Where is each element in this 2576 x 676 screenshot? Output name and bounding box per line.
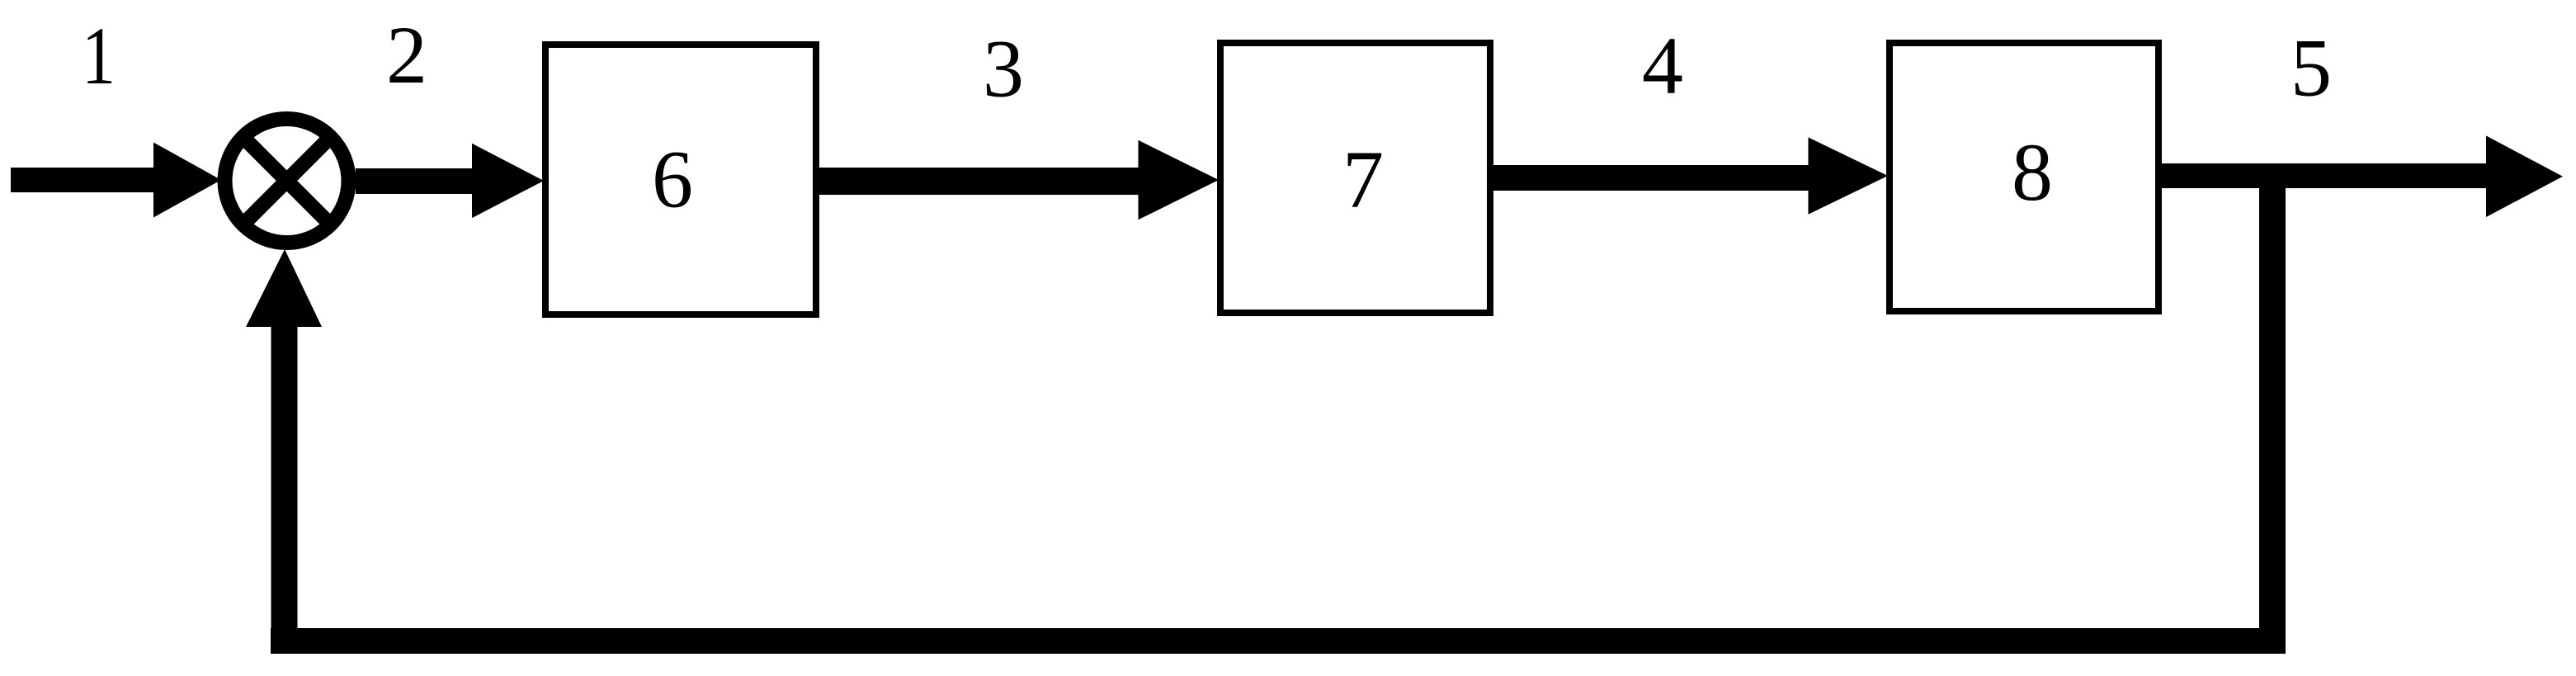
wire feedback bottom horizontal [271, 628, 2286, 654]
wire feedback vertical right [2259, 173, 2286, 654]
arrowhead input into summing junction [153, 143, 221, 218]
svg-text:8: 8 [2012, 126, 2053, 218]
arrowhead into block 8 [1809, 137, 1889, 214]
arrowhead up into summing junction [246, 249, 322, 327]
summing junction X cross [243, 136, 332, 225]
block 7 (plant) [1220, 43, 1490, 313]
block 8 (output stage) [1890, 43, 2158, 311]
svg-text:2: 2 [386, 9, 427, 101]
svg-text:4: 4 [1642, 20, 1683, 111]
svg-text:7: 7 [1342, 134, 1384, 225]
svg-text:3: 3 [983, 23, 1024, 115]
wire block 6 to block 7 [819, 168, 1141, 195]
svg-text:6: 6 [652, 134, 693, 225]
wire block 7 to block 8 [1493, 165, 1811, 191]
svg-text:1: 1 [82, 10, 116, 101]
summing junction (circle) [225, 119, 349, 243]
arrowhead output [2486, 135, 2563, 217]
wire output from block 8 [2162, 163, 2488, 188]
svg-text:5: 5 [2291, 22, 2332, 114]
block 6 (controller) [545, 45, 816, 314]
wire feedback vertical left [271, 325, 298, 654]
wire input [11, 168, 161, 192]
wire summing junction to block 6 [356, 168, 479, 194]
arrowhead into block 6 [472, 144, 544, 218]
arrowhead into block 7 [1139, 140, 1220, 220]
